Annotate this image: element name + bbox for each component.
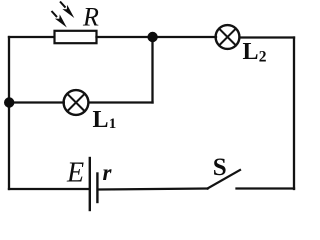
wire top-left segment	[9, 36, 55, 38]
wire bottom-left segment	[9, 188, 89, 190]
switch S lever	[208, 170, 241, 189]
svg-text:2: 2	[259, 49, 267, 66]
svg-text:L: L	[243, 39, 259, 65]
resistor R (photoresistor box)	[55, 31, 97, 43]
svg-text:E: E	[66, 158, 84, 189]
battery short plate (negative terminal)	[96, 174, 98, 203]
wire bottom-middle segment	[99, 189, 208, 190]
node junction dot on top wire	[147, 32, 157, 42]
wire middle vertical (junction to L1 branch)	[151, 37, 153, 103]
wire left vertical	[8, 37, 10, 189]
battery long plate (E positive terminal)	[89, 158, 91, 210]
wire top-right segment	[240, 36, 294, 38]
svg-text:R: R	[82, 3, 99, 32]
svg-text:1: 1	[109, 116, 117, 132]
light arrow 2 (lower)	[52, 11, 67, 28]
svg-text:r: r	[103, 160, 113, 185]
svg-text:S: S	[213, 154, 227, 181]
svg-text:L: L	[93, 107, 109, 133]
lamp L1	[64, 90, 89, 115]
wire bottom-right segment	[237, 187, 295, 189]
lamp L2	[216, 25, 240, 49]
wire right vertical	[293, 38, 295, 190]
light arrow 1 (upper)	[60, 2, 74, 19]
wire top-middle segment	[97, 36, 217, 38]
wire L1-branch right segment	[89, 101, 153, 103]
node junction dot on left wire	[4, 97, 14, 107]
wire L1-branch left segment	[9, 101, 64, 103]
